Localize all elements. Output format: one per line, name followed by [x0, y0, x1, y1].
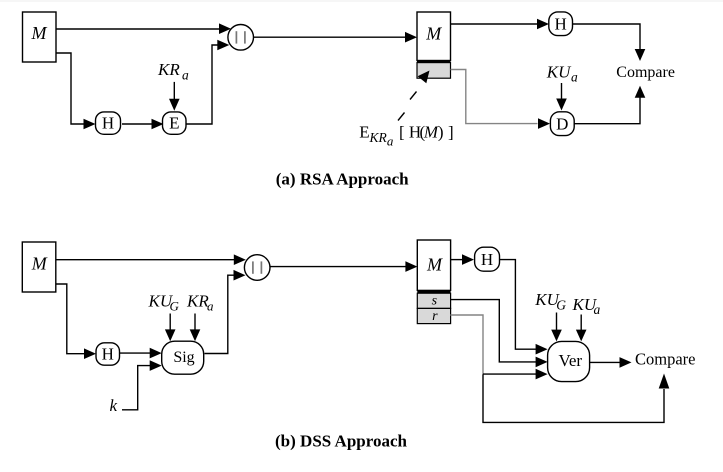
hash H (b right) — [475, 247, 500, 271]
svg-text:D: D — [556, 114, 568, 133]
s gray box (b) — [417, 293, 450, 308]
divider thick line (b) — [417, 290, 450, 293]
svg-text:H: H — [481, 250, 493, 269]
svg-text:M: M — [425, 24, 442, 44]
divider thick line (a) — [417, 60, 451, 62]
svg-text:KU: KU — [546, 62, 572, 81]
svg-text:G: G — [170, 299, 180, 314]
label E KRa [ H(M) ] (a) — [359, 123, 453, 149]
wire M to H (b right) — [450, 254, 474, 265]
hash H (a) — [96, 112, 121, 134]
concat circle (a) — [228, 25, 254, 51]
arrow KUG into Ver (b) — [551, 313, 562, 342]
svg-text:M: M — [426, 254, 443, 274]
svg-text:a: a — [207, 299, 214, 314]
svg-text:H: H — [102, 345, 114, 364]
svg-text:s: s — [432, 294, 438, 309]
svg-text:E: E — [359, 123, 369, 142]
gray wire signature to D (a) — [451, 70, 551, 129]
decrypt D (a) — [550, 112, 574, 136]
wire M to concat (b) — [56, 254, 246, 265]
concat circle (b) — [244, 255, 270, 281]
svg-text:[H(M)]: [H(M)] — [399, 123, 454, 142]
wire H to Sig (b) — [120, 348, 162, 359]
wire concat to M received (a) — [254, 32, 418, 43]
box M received (b) — [417, 240, 450, 290]
svg-text:KR: KR — [157, 60, 180, 79]
svg-text:Compare: Compare — [635, 350, 695, 369]
dashed pointer to signature (a) — [398, 71, 430, 121]
svg-text:G: G — [556, 298, 566, 313]
arrow KUG into Sig (b) — [165, 314, 176, 342]
svg-text:Ver: Ver — [558, 351, 582, 370]
arrow KUa into D (a) — [556, 83, 567, 111]
encrypt E (a) — [163, 112, 187, 134]
arrow KRa into Sig (b) — [190, 314, 201, 342]
gray wire r (b) — [450, 315, 483, 374]
hash H (b) — [96, 343, 120, 365]
svg-text:(a) RSA Approach: (a) RSA Approach — [276, 170, 409, 189]
svg-text:a: a — [387, 134, 394, 149]
wire r to Compare bottom (b) — [483, 374, 669, 423]
hash H (a right) — [549, 12, 573, 36]
box M received (a) — [417, 12, 451, 61]
wire s to Ver (b) — [450, 300, 547, 368]
svg-text:k: k — [110, 396, 118, 415]
svg-text:M: M — [31, 23, 48, 43]
svg-text:H: H — [102, 114, 114, 133]
svg-text:E: E — [169, 114, 179, 133]
wire Ver to Compare (b) — [590, 357, 632, 368]
wire M to concat (a) — [56, 23, 231, 34]
wire M to H (a right) — [451, 19, 550, 30]
label KRa (b left) — [186, 292, 214, 314]
svg-text:M: M — [31, 253, 48, 273]
wire H to Ver (b) — [500, 260, 548, 355]
svg-text:H: H — [555, 14, 567, 33]
label KUG (b right) — [534, 290, 566, 312]
box M source (a) — [23, 12, 57, 62]
arrow KRa into E (a) — [169, 82, 180, 111]
wire D to Compare (a) — [574, 86, 645, 124]
label KUa (b right) — [572, 295, 601, 317]
svg-text:a: a — [594, 302, 601, 317]
svg-text:(b) DSS Approach: (b) DSS Approach — [275, 432, 407, 451]
box M source (b) — [22, 242, 56, 292]
signature gray box (a) — [417, 63, 451, 79]
wire M down to H (b) — [56, 284, 96, 359]
svg-text:a: a — [571, 70, 578, 85]
r gray box (b) — [417, 308, 450, 324]
label KRa (a) — [157, 60, 189, 82]
top window edge shading — [0, 0, 723, 2]
svg-text:KR: KR — [369, 130, 388, 145]
wire r branch to Ver (b) — [483, 369, 548, 380]
wire E to concat (a) — [186, 40, 229, 124]
svg-text:r: r — [432, 309, 438, 324]
wire H to Compare (a) — [573, 24, 646, 61]
wire k to Sig (b) — [122, 360, 162, 410]
arrow KUa into Ver (b) — [576, 315, 587, 342]
svg-text:Sig: Sig — [173, 349, 194, 366]
svg-text:a: a — [182, 68, 189, 83]
wire M down to H (a) — [56, 53, 96, 129]
wire H to E (a) — [122, 119, 164, 130]
svg-text:Compare: Compare — [616, 64, 675, 81]
svg-text:KR: KR — [186, 292, 209, 311]
label KUG (b left) — [148, 292, 180, 314]
sign function Sig (b) — [162, 341, 204, 374]
wire concat to M received (b) — [270, 261, 417, 272]
label KUa (a) — [546, 62, 578, 84]
verify function Ver (b) — [548, 341, 590, 381]
wire Sig to concat (b) — [205, 270, 246, 354]
